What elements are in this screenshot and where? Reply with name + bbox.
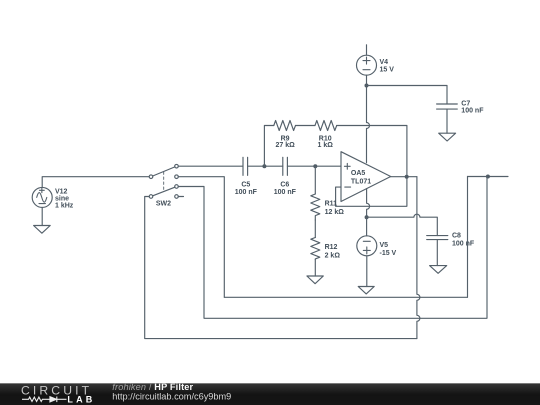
wire SW2 throw1 to C5: [178, 165, 243, 167]
op-amp + input symbol: [344, 163, 350, 169]
op-amp OA5 triangle: [341, 152, 391, 202]
svg-text:C5: C5: [241, 181, 250, 188]
wire R9 to R10: [296, 125, 316, 127]
svg-text:100 nF: 100 nF: [461, 108, 484, 115]
ground (below C8): [430, 266, 447, 274]
wire -input feedback wrap: [336, 177, 407, 207]
svg-text:frohiken / HP Filter: frohiken / HP Filter: [112, 382, 193, 392]
svg-text:27 kΩ: 27 kΩ: [275, 142, 295, 149]
svg-text:LAB: LAB: [67, 394, 95, 404]
capacitor C6: [283, 157, 288, 175]
wire junction to C8 (hops output loop wire): [367, 214, 438, 235]
label R9 27 kOhm: [275, 135, 295, 149]
resistor R10: [315, 121, 337, 131]
wire SW2 pole2 common down (loop C left): [145, 197, 417, 339]
svg-text:OA5: OA5: [351, 170, 366, 177]
wire loop A bottom: [224, 296, 467, 298]
wire R12 to ground: [314, 259, 316, 276]
label R11 12 kOhm: [325, 200, 345, 216]
wire output stub net: [468, 176, 509, 178]
node V-/V5/C8 junction: [365, 215, 369, 219]
wire node A up to R9: [264, 126, 273, 167]
svg-text:15 V: 15 V: [380, 66, 395, 73]
label C8 100 nF: [452, 232, 475, 247]
capacitor C7: [437, 104, 458, 109]
svg-text:12 kΩ: 12 kΩ: [325, 209, 345, 216]
svg-text:SW2: SW2: [156, 200, 171, 207]
wire SW2 pole1 throw2 down (loop A left): [178, 177, 224, 298]
label C5 100 nF: [235, 181, 258, 196]
wire node B down to R11: [314, 166, 316, 194]
node V4/C7/V+ junction: [365, 84, 369, 88]
svg-text:1 kHz: 1 kHz: [55, 203, 74, 210]
wire R10 to output node (feedback top): [337, 126, 407, 177]
logo resistor-diode symbol: [22, 397, 67, 403]
node B (C6/+in/R11 junction): [313, 164, 317, 168]
footer bar: [0, 383, 540, 405]
resistor R12: [311, 238, 320, 260]
switch SW2 (DPDT): [149, 164, 178, 198]
node A (C5/C6/R9 junction): [262, 164, 266, 168]
label V4 15 V: [380, 59, 395, 73]
svg-text:2 kΩ: 2 kΩ: [325, 252, 341, 259]
resistor R11: [311, 194, 320, 220]
svg-text:C6: C6: [280, 181, 289, 188]
svg-text:100 nF: 100 nF: [235, 189, 258, 196]
label OA5 TL071: [351, 170, 371, 186]
wire op-amp V+ supply pin (hops feedback wire): [367, 86, 370, 163]
svg-text:TL071: TL071: [351, 179, 371, 186]
wire op-amp V- supply pin (hops -input wire): [367, 189, 370, 218]
voltage source V12 (sine 1 kHz): [32, 187, 52, 207]
voltage source V5 (-15 V): [357, 217, 377, 286]
svg-text:V5: V5: [380, 242, 389, 249]
label C7 100 nF: [461, 100, 484, 114]
wire C7 to ground: [446, 109, 448, 133]
svg-text:-15 V: -15 V: [380, 250, 397, 257]
ground (below R12): [307, 276, 323, 284]
svg-text:1 kΩ: 1 kΩ: [318, 142, 334, 149]
svg-text:C7: C7: [461, 100, 470, 107]
label R12 2 kOhm: [325, 244, 341, 259]
wire loop A right up to out stub: [467, 177, 469, 298]
node output junction: [405, 175, 409, 179]
wire R11 to R12: [314, 220, 316, 238]
svg-text:C8: C8: [452, 232, 461, 239]
svg-text:R11: R11: [325, 200, 338, 207]
wire output vertical down (hops loops A,B) to loop C: [417, 177, 420, 339]
capacitor C8: [427, 236, 448, 240]
label R10 1 kOhm: [318, 135, 334, 149]
wire SW2 pole2 throw1 down (loop B): [178, 177, 487, 319]
resistor R9: [274, 121, 296, 131]
svg-text:100 nF: 100 nF: [452, 240, 475, 247]
label C6 100 nF: [274, 181, 297, 196]
label V5 -15 V: [380, 242, 397, 257]
wire V4 junction to C7: [367, 86, 448, 105]
wire C6 to op-amp + input: [287, 165, 341, 167]
wire V12 bottom to ground: [41, 207, 43, 225]
ground (below C7): [439, 133, 456, 141]
svg-text:100 nF: 100 nF: [274, 189, 297, 196]
voltage source V4 (15 V): [357, 45, 377, 86]
op-amp - input symbol: [345, 186, 351, 188]
svg-text:http://circuitlab.com/c6y9bm9: http://circuitlab.com/c6y9bm9: [112, 391, 231, 401]
capacitor C5: [243, 157, 248, 175]
ground (below V12): [34, 226, 51, 234]
svg-text:V4: V4: [380, 59, 389, 66]
label V12 sine 1 kHz: [55, 189, 74, 210]
wire V12 top to SW2 common: [42, 177, 149, 188]
svg-text:R12: R12: [325, 244, 338, 251]
node stub junction: [486, 175, 490, 179]
ground (below V5): [358, 287, 374, 294]
wire C5 to C6: [248, 165, 283, 167]
SW2 pole2 NC stub: [178, 196, 183, 198]
wire op-amp output: [391, 176, 417, 178]
wire C8 to ground: [436, 240, 438, 266]
